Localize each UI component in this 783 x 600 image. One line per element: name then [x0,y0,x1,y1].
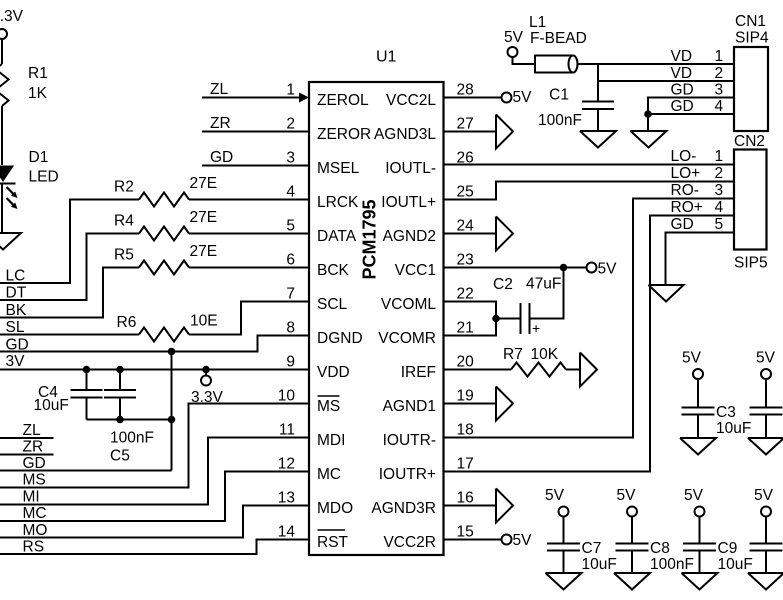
svg-text:IOUTL-: IOUTL- [385,160,436,177]
svg-text:8: 8 [286,320,295,337]
svg-text:24: 24 [457,218,475,235]
net ZL wire to pin 1 [202,81,301,98]
wire pin 16 [444,505,496,507]
U1 right pin names [371,92,436,551]
net MO wire to pin 13 [0,506,309,540]
svg-text:2: 2 [286,116,295,133]
svg-text:L1: L1 [529,14,546,31]
svg-text:5V: 5V [504,29,524,46]
svg-text:MC: MC [317,466,341,483]
svg-text:10: 10 [278,388,296,405]
capacitor C4 10uF [34,370,103,420]
svg-text:5V: 5V [754,487,774,504]
net BK wire to R5 [0,268,139,320]
svg-text:RO+: RO+ [671,199,703,216]
svg-text:3V: 3V [6,353,26,370]
wire pin 26 to CN2 LO- [444,164,734,166]
junction rail / C5 [116,416,124,424]
ground C1 [580,131,616,148]
svg-text:AGND3L: AGND3L [374,126,436,143]
svg-text:23: 23 [457,252,474,269]
resistor R5 27E [114,243,309,275]
svg-text:MS: MS [23,472,46,489]
svg-text:RS: RS [23,539,45,556]
ground AGND R7 IREF [580,353,597,387]
svg-text:4: 4 [715,199,724,216]
net DT wire to R4 [0,234,139,302]
ground C7 [546,573,582,590]
net MI wire to pin 11 [0,438,309,506]
svg-text:4: 4 [286,184,295,201]
junction 3V / 3.3V terminal [202,366,210,374]
svg-text:25: 25 [457,184,474,201]
svg-text:27E: 27E [190,175,218,192]
capacitor C1 100nF [538,87,614,132]
svg-text:C3: C3 [716,404,736,421]
svg-text:16: 16 [457,490,474,507]
power terminal 5V C9 [684,487,705,543]
svg-text:27E: 27E [190,243,218,260]
power terminal 5V pin 23 [587,261,618,278]
junction GD4 [644,110,652,118]
svg-text:AGND2: AGND2 [383,228,436,245]
capacitor C9 10uF [683,540,753,573]
svg-text:C5: C5 [110,448,130,465]
power terminal 5V pin 15 [444,532,532,549]
net SL wire to R6 [0,319,139,336]
svg-text:C7: C7 [582,540,602,557]
svg-text:SIP4: SIP4 [735,30,769,47]
net ZR wire to pin 2 [202,115,309,132]
svg-text:MC: MC [23,505,47,522]
svg-text:BCK: BCK [317,262,350,279]
svg-text:SCL: SCL [317,296,348,313]
svg-text:21: 21 [457,320,474,337]
net 3V wire to pin 9 VDD [0,353,309,370]
svg-text:R2: R2 [114,179,134,196]
svg-text:IOUTL+: IOUTL+ [381,194,436,211]
junction VCC1 / C2 [560,264,568,272]
svg-text:5V: 5V [513,89,533,106]
svg-text:3: 3 [286,150,295,167]
svg-text:3: 3 [715,182,724,199]
power terminal 5V pin 28 [444,89,532,106]
svg-text:12: 12 [278,456,295,473]
svg-text:GD: GD [671,98,694,115]
svg-text:100nF: 100nF [110,430,154,447]
svg-text:CN1: CN1 [735,13,766,30]
svg-text:5V: 5V [598,261,618,278]
junction rail / GD riser [168,416,176,424]
resistor R2 27E [114,175,309,207]
svg-text:D1: D1 [29,149,49,166]
svg-text:5V: 5V [756,350,776,367]
svg-text:VCC2L: VCC2L [386,92,436,109]
svg-text:5: 5 [286,218,295,235]
svg-text:5V: 5V [682,350,702,367]
svg-text:17: 17 [457,456,474,473]
capacitor C10 [750,544,783,574]
wire pin 19 [444,403,496,405]
svg-text:27: 27 [457,116,474,133]
svg-text:MDO: MDO [317,500,353,517]
svg-text:VCC1: VCC1 [395,262,436,279]
svg-text:VCOMR: VCOMR [378,330,436,347]
svg-text:MS: MS [317,398,340,415]
ground below LED [0,233,21,250]
wire pin 27 [444,131,496,133]
junction VCOM / C2 [492,315,500,323]
svg-text:RST: RST [317,534,349,551]
svg-text:ZEROR: ZEROR [317,126,371,143]
svg-text:2: 2 [715,165,724,182]
svg-text:1: 1 [715,148,724,165]
svg-text:VD: VD [671,48,693,65]
svg-text:LO+: LO+ [671,165,701,182]
svg-text:ZR: ZR [23,439,44,456]
svg-text:IOUTR+: IOUTR+ [379,466,436,483]
ferrite bead L1 F-BEAD [529,14,734,73]
svg-text:LO-: LO- [671,148,697,165]
svg-text:5V: 5V [617,487,637,504]
svg-text:C8: C8 [650,540,670,557]
svg-text:+: + [532,320,540,336]
svg-text:R7: R7 [503,346,523,363]
svg-text:18: 18 [457,422,474,439]
power terminal 5V C10 [754,487,774,543]
svg-text:10uF: 10uF [582,556,617,573]
svg-text:DT: DT [6,285,27,302]
wire cap ground rail [87,419,172,421]
wire pins 22/21 VCOML VCOMR [444,302,521,336]
ground C6 [748,438,783,455]
svg-text:3.3V: 3.3V [0,8,24,25]
power terminal 5V C8 [617,487,638,543]
net ZL stub [0,422,54,439]
resistor R4 27E [114,209,309,241]
svg-text:3: 3 [715,82,724,99]
ground CN2 GD [649,285,684,302]
svg-text:1K: 1K [28,85,48,102]
svg-text:47uF: 47uF [526,276,561,293]
svg-text:C2: C2 [493,276,513,293]
svg-text:5V: 5V [513,532,533,549]
svg-text:U1: U1 [376,49,397,66]
svg-text:GD: GD [210,149,233,166]
svg-text:IREF: IREF [401,364,436,381]
svg-text:LED: LED [29,169,59,186]
svg-text:10K: 10K [531,346,559,363]
svg-text:GD: GD [671,82,694,99]
svg-text:C9: C9 [718,540,738,557]
svg-text:5: 5 [715,216,724,233]
power terminal 5V C7 [545,487,569,543]
svg-text:PCM1795: PCM1795 [360,199,380,279]
svg-text:7: 7 [286,286,295,303]
svg-text:AGND1: AGND1 [383,398,436,415]
svg-text:BK: BK [6,302,27,319]
capacitor C6 [750,408,783,439]
capacitor C8 100nF [616,540,694,573]
wire pin 23 VCC1 [444,267,587,269]
svg-text:CN2: CN2 [734,133,765,150]
svg-text:100nF: 100nF [650,556,694,573]
power terminal 3.3V mid [191,370,224,407]
svg-text:R5: R5 [114,247,134,264]
svg-text:10uF: 10uF [718,556,753,573]
svg-text:ZEROL: ZEROL [317,92,369,109]
wire CN1 GD3 GD4 [648,98,734,132]
wire GD riser down [171,352,173,471]
ground CN1 GD [631,131,667,148]
svg-text:MI: MI [23,489,40,506]
net MC wire to pin 12 [0,472,309,523]
svg-text:MDI: MDI [317,432,345,449]
svg-text:R1: R1 [28,65,48,82]
IC U1 PCM1795 box [309,49,444,556]
capacitor C3 10uF [682,404,752,438]
power terminal 5V C3 [682,350,703,407]
svg-text:10uF: 10uF [34,397,69,414]
svg-text:VD: VD [671,65,693,82]
svg-text:ZL: ZL [23,422,41,439]
wire pin 18 to CN2 RO- [444,199,734,438]
svg-text:VCOML: VCOML [381,296,437,313]
net GD wire to cap rail [0,455,172,472]
svg-text:22: 22 [457,286,474,303]
svg-text:IOUTR-: IOUTR- [383,432,436,449]
svg-text:VCC2R: VCC2R [383,534,436,551]
svg-text:4: 4 [715,98,724,115]
svg-text:R4: R4 [114,213,134,230]
svg-text:6: 6 [286,252,295,269]
svg-text:R6: R6 [117,314,137,331]
svg-text:F-BEAD: F-BEAD [530,30,587,47]
svg-text:10E: 10E [190,313,218,330]
svg-text:DGND: DGND [317,330,363,347]
LED D1 [0,149,59,233]
connector CN1 SIP4 [671,13,769,131]
capacitor C5 100nF [104,370,154,465]
ground AGND3R pin 16 [496,489,513,523]
svg-text:RO-: RO- [671,182,699,199]
svg-text:10uF: 10uF [716,420,751,437]
svg-text:1: 1 [715,48,724,65]
resistor R6 10E [117,302,310,342]
wire CN1 VD2 [598,80,734,82]
pin 1 input arrow [299,93,309,103]
svg-text:SL: SL [6,319,25,336]
svg-text:20: 20 [457,354,475,371]
svg-text:28: 28 [457,82,474,99]
resistor R1 1K [0,64,48,165]
wire CN2 GD to ground [666,233,735,286]
svg-text:SIP5: SIP5 [734,255,768,272]
net MS wire to pin 10 [0,404,309,489]
svg-text:14: 14 [278,524,296,541]
svg-text:11: 11 [279,422,295,439]
svg-text:LRCK: LRCK [317,194,359,211]
junction GD / cap riser [168,348,176,356]
power terminal 5V C6 [756,350,776,407]
svg-text:2: 2 [715,65,724,82]
svg-text:GD: GD [23,455,46,472]
junction 3V / C4 [83,366,91,374]
svg-text:100nF: 100nF [538,112,582,129]
resistor R7 10K [444,346,580,377]
net ZR stub [0,439,54,456]
connector CN2 SIP5 [671,133,768,272]
net LC wire to R2 [0,200,139,285]
ground C3 [680,438,716,455]
capacitor C7 10uF [547,540,617,573]
ground AGND2 pin 24 [496,217,513,251]
ground AGND3L pin 27 [496,115,513,149]
power terminal 3.3V top-left [0,8,24,64]
wire pin 25 to CN2 LO+ [444,182,734,200]
svg-text:C1: C1 [549,87,569,104]
ground C8 [614,573,650,590]
svg-text:13: 13 [278,490,295,507]
svg-text:1: 1 [286,82,295,99]
svg-text:5V: 5V [545,487,565,504]
svg-text:LC: LC [6,268,26,285]
net GD wire to pin 3 [202,149,309,166]
ground C9 [682,573,718,590]
svg-text:AGND3R: AGND3R [371,500,436,517]
wire VD riser [597,64,599,101]
U1 right pin numbers 15-28 [457,82,475,541]
svg-text:27E: 27E [190,209,218,226]
ground C10 [748,573,783,590]
svg-text:5V: 5V [684,487,704,504]
svg-text:ZL: ZL [210,81,228,98]
svg-text:19: 19 [457,388,474,405]
net GD wire to pin 8 DGND [0,336,309,354]
svg-text:15: 15 [457,524,474,541]
ground AGND1 pin 19 [496,387,513,421]
svg-text:MSEL: MSEL [317,160,360,177]
power terminal 5V L1 [504,29,535,64]
svg-text:VDD: VDD [317,364,350,381]
wire pin 17 to CN2 RO+ [444,216,734,472]
svg-text:GD: GD [671,216,694,233]
junction 3V / C5 [116,366,124,374]
capacitor C2 47uF [493,268,564,337]
wire pin 24 [444,233,496,235]
svg-text:ZR: ZR [210,115,231,132]
U1 left pin names [317,92,371,551]
net RS wire to pin 14 [0,539,309,556]
svg-text:DATA: DATA [317,228,357,245]
U1 left pin numbers 1-14 [278,82,296,541]
svg-text:MO: MO [23,522,48,539]
svg-text:9: 9 [286,354,295,371]
